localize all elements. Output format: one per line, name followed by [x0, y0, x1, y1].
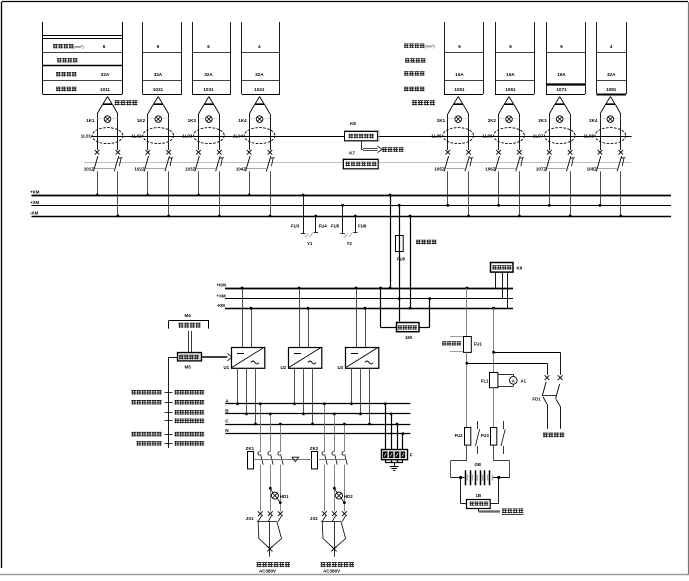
- signal tick: bus insulation detect: [131, 432, 204, 437]
- signal tick: closing bus voltage sample: [131, 400, 204, 405]
- svg-text:1K2: 1K2: [137, 118, 146, 123]
- feeder 104Z output arrow: [255, 97, 264, 104]
- busbar +KM (closing bus positive): [30, 190, 671, 196]
- right table column for feeder 8: [597, 22, 627, 95]
- rectifier module U1: [224, 347, 265, 370]
- feeder 108Z current transformer 1L08: [584, 128, 626, 144]
- svg-text:1L05: 1L05: [431, 134, 442, 139]
- svg-text:1051: 1051: [454, 87, 465, 92]
- hollow arrow sampler to module U1: [201, 353, 232, 360]
- feeder 106Z plug/lamp symbol 2K2: [488, 105, 520, 151]
- feeder 102Z plug/lamp symbol 1K2: [137, 105, 169, 151]
- feeder 105Z wires to DC busbars: [446, 171, 470, 217]
- svg-text:103Z: 103Z: [185, 166, 196, 171]
- left table column for feeder 4: [242, 22, 280, 95]
- feeder 102Z wires to DC busbars: [146, 171, 170, 217]
- svg-text:A: A: [512, 378, 515, 383]
- right table column for feeder 5: [444, 22, 484, 95]
- AC busbar B: [225, 408, 410, 413]
- feeder 102Z breaker poles 102Z: [134, 150, 173, 171]
- svg-text:GB: GB: [475, 462, 482, 467]
- cable entry funnel JX2: [310, 516, 346, 557]
- svg-text:16A: 16A: [557, 72, 566, 77]
- feeder 105Z breaker poles 105Z: [434, 150, 473, 171]
- svg-text:JX1: JX1: [246, 516, 254, 521]
- feeder 107Z current transformer 1L07: [533, 128, 575, 144]
- svg-text:108Z: 108Z: [587, 166, 598, 171]
- feeder 101Z breaker poles 101Z: [84, 150, 123, 171]
- battery positive wire from +KM bus: [466, 287, 469, 337]
- svg-text:AC380V: AC380V: [259, 569, 276, 574]
- svg-text:106Z: 106Z: [485, 166, 496, 171]
- svg-text:105Z: 105Z: [434, 166, 445, 171]
- svg-text:ZK1: ZK1: [246, 446, 255, 451]
- battery negative wire from -KM bus: [492, 307, 495, 373]
- busbar +XM (control bus positive): [30, 200, 671, 206]
- svg-text:1081: 1081: [606, 87, 617, 92]
- svg-text:16A: 16A: [506, 72, 515, 77]
- shunt FL1 with ammeter A1: [481, 373, 527, 388]
- feeder 101Z output arrow: [103, 97, 112, 104]
- feeder 104Z wires to DC busbars: [248, 171, 272, 217]
- svg-text:1L06: 1L06: [482, 134, 493, 139]
- module U2 DC output wires: [298, 287, 310, 348]
- svg-text:1011: 1011: [100, 87, 110, 92]
- voltage monitor box K9: [491, 263, 523, 309]
- svg-text:1021: 1021: [153, 87, 164, 92]
- feeder 105Z plug/lamp symbol 2K1: [437, 105, 469, 151]
- feeder 104Z current transformer 1L04: [233, 128, 275, 144]
- svg-text:1071: 1071: [556, 87, 567, 92]
- svg-text:6: 6: [560, 44, 563, 49]
- left table row labels: [53, 44, 84, 91]
- svg-text:AC380V: AC380V: [323, 569, 340, 574]
- svg-text:FL1: FL1: [481, 378, 489, 383]
- svg-text:+KM: +KM: [30, 190, 40, 195]
- feeder 107Z output arrow: [555, 97, 564, 104]
- cable entry funnel JX1: [246, 516, 282, 557]
- voltage dropper device 160: [379, 287, 431, 340]
- svg-text:A1: A1: [521, 378, 527, 383]
- feeder 107Z wires to DC busbars: [548, 171, 572, 217]
- svg-text:32A: 32A: [101, 72, 110, 77]
- signal tick: charge voltage sample: [165, 419, 205, 424]
- AC input branch 2 circuit label: [310, 402, 354, 573]
- right table column for feeder 6: [495, 22, 535, 95]
- feeder 108Z breaker poles 108Z: [587, 150, 626, 171]
- feeder 102Z current transformer 1L02: [131, 128, 173, 144]
- feeder 105Z current transformer 1L05: [431, 128, 473, 144]
- contactor ZK1 poles: [258, 402, 283, 516]
- svg-text:6: 6: [103, 44, 106, 49]
- switch-state monitor box K8: [345, 121, 380, 141]
- svg-text:4: 4: [610, 44, 613, 49]
- svg-text:U1: U1: [224, 365, 230, 370]
- svg-text:32A: 32A: [255, 72, 264, 77]
- signal tick: battery voltage sample: [131, 390, 204, 395]
- battery positive wire continues: [466, 352, 469, 428]
- wire -KM to lower bus: [409, 215, 412, 310]
- feeder 102Z output arrow: [154, 97, 163, 104]
- arrow to main monitor (top): [349, 146, 403, 155]
- battery fuse FU2 and isolating link: [455, 421, 480, 454]
- svg-text:1L03: 1L03: [182, 134, 193, 139]
- discharge circuit label: [543, 433, 564, 438]
- feeder 103Z breaker poles 103Z: [185, 150, 224, 171]
- discharge disconnect FD1: [532, 375, 562, 428]
- rectifier module U2: [281, 347, 322, 370]
- svg-text:F: F: [410, 452, 413, 457]
- right group label (control-bus output): [412, 100, 435, 105]
- feeder 104Z breaker poles 104Z: [236, 150, 275, 171]
- svg-text:4: 4: [258, 44, 261, 49]
- right table column for feeder 7: [546, 22, 586, 95]
- left feeder data table box: [43, 22, 123, 95]
- svg-text:M4: M4: [185, 313, 192, 318]
- module U1 AC input wires: [236, 368, 257, 425]
- svg-text:1K4: 1K4: [238, 118, 247, 123]
- AC input branch 1 circuit label: [246, 402, 290, 573]
- right table row labels: [404, 43, 435, 91]
- svg-text:6: 6: [458, 44, 461, 49]
- AC busbar C: [225, 419, 410, 425]
- contactor ZK2 poles: [322, 402, 347, 516]
- integrated sampler box M5: [178, 353, 202, 370]
- svg-text:(mm²): (mm²): [425, 45, 436, 49]
- busbar -KM (negative): [30, 211, 671, 217]
- svg-text:32A: 32A: [154, 72, 163, 77]
- svg-text:Y2: Y2: [347, 241, 353, 246]
- svg-text:U2: U2: [281, 365, 287, 370]
- charge fuse FU1: [442, 337, 483, 353]
- left table col1 values: [100, 44, 110, 92]
- AC contactor ZK2: [310, 446, 319, 469]
- AC busbar A: [225, 398, 410, 403]
- svg-text:+KM: +KM: [217, 283, 227, 288]
- svg-text:M5: M5: [185, 365, 192, 370]
- rectifier module U3: [338, 347, 379, 370]
- indicator lamp HD2: [333, 487, 353, 504]
- feeder 104Z plug/lamp symbol 1K4: [238, 105, 270, 151]
- AC busbar N: [225, 428, 410, 433]
- svg-text:FU2: FU2: [455, 433, 464, 438]
- svg-text:16A: 16A: [455, 72, 464, 77]
- ground symbol for surge protector: [385, 460, 403, 471]
- svg-text:101Z: 101Z: [84, 166, 95, 171]
- feeder 101Z plug/lamp symbol 1K1: [86, 105, 118, 151]
- signal tick: control bus voltage sample: [165, 410, 205, 415]
- svg-text:Y1: Y1: [307, 241, 313, 246]
- surge protector F: [382, 402, 413, 459]
- left table column for feeder 3: [192, 22, 231, 95]
- wire +KM to lower bus: [389, 194, 392, 290]
- module U3 DC output wires: [355, 287, 367, 348]
- signal tick: system fault alarm: [137, 441, 205, 446]
- svg-text:1L04: 1L04: [233, 134, 244, 139]
- feeder 107Z plug/lamp symbol 2K3: [538, 105, 570, 151]
- discharge branch wires: [467, 352, 561, 375]
- battery negative wire continues: [493, 388, 495, 428]
- feeder output line y136: [91, 136, 632, 138]
- svg-text:FU3: FU3: [481, 433, 490, 438]
- svg-text:+XM: +XM: [217, 293, 226, 298]
- svg-text:1L02: 1L02: [131, 134, 142, 139]
- lower busbar +KM: [217, 283, 514, 289]
- feeder 106Z current transformer 1L06: [482, 128, 524, 144]
- feeder 101Z current transformer 1L01: [81, 128, 123, 144]
- svg-text:6: 6: [157, 44, 160, 49]
- svg-text:2K3: 2K3: [538, 118, 547, 123]
- left group label (closing-bus output): [115, 100, 138, 105]
- isolator linkage grey line y162.6: [84, 162, 631, 164]
- feeder 101Z wires to DC busbars: [96, 171, 120, 217]
- lower busbar -KM: [217, 303, 514, 309]
- battery fuse FU3 and isolating link: [481, 421, 505, 454]
- svg-text:2K2: 2K2: [488, 118, 497, 123]
- indicator lamp HD1: [269, 487, 289, 504]
- arrester tap Y2 with fuses FU5 FU6: [331, 204, 367, 246]
- svg-text:+XM: +XM: [30, 200, 39, 205]
- feeder 108Z output arrow: [606, 97, 615, 104]
- feeder 108Z wires to DC busbars: [599, 171, 623, 217]
- svg-text:1L07: 1L07: [533, 134, 544, 139]
- feeder 103Z current transformer 1L03: [182, 128, 224, 144]
- AC contactor ZK1: [246, 446, 255, 469]
- wire +XM down with control fuse FU0: [396, 204, 437, 322]
- svg-text:6: 6: [207, 44, 210, 49]
- svg-text:1B: 1B: [476, 493, 482, 498]
- svg-text:FU3: FU3: [291, 224, 300, 229]
- svg-text:FU6: FU6: [358, 224, 367, 229]
- svg-text:1041: 1041: [254, 87, 265, 92]
- svg-text:FU4: FU4: [319, 224, 328, 229]
- double link monitor to sampler: [189, 331, 192, 353]
- DC insulation monitor box: [343, 159, 379, 170]
- sampler signal trunk wire: [168, 357, 177, 448]
- svg-text:ZK2: ZK2: [310, 446, 319, 451]
- svg-text:1061: 1061: [505, 87, 516, 92]
- feeder 108Z plug/lamp symbol 2K4: [589, 105, 621, 151]
- lower busbar +XM: [217, 293, 514, 298]
- svg-text:FD1: FD1: [532, 397, 541, 402]
- arrester tap Y1 with fuses FU3 FU4: [291, 194, 327, 247]
- svg-text:2K1: 2K1: [437, 118, 446, 123]
- feeder 106Z wires to DC busbars: [497, 171, 521, 217]
- feeder 106Z output arrow: [505, 97, 514, 104]
- svg-text:-KM: -KM: [217, 303, 226, 308]
- svg-text:104Z: 104Z: [236, 166, 247, 171]
- battery group GB: [451, 445, 510, 485]
- svg-text:1L01: 1L01: [81, 134, 92, 139]
- svg-text:HD1: HD1: [280, 494, 289, 499]
- svg-text:6: 6: [509, 44, 512, 49]
- svg-text:JX2: JX2: [310, 516, 318, 521]
- svg-text:1K1: 1K1: [86, 118, 95, 123]
- monitor module bracket M4: [169, 313, 209, 329]
- svg-text:U3: U3: [338, 365, 344, 370]
- feeder 107Z breaker poles 107Z: [536, 150, 575, 171]
- left table column for feeder 2: [143, 22, 182, 95]
- contactor linkage bar with changeover mark: [253, 457, 346, 461]
- svg-text:FU0: FU0: [397, 257, 406, 262]
- feeder 106Z breaker poles 106Z: [485, 150, 524, 171]
- svg-text:107Z: 107Z: [536, 166, 547, 171]
- svg-text:FU1: FU1: [474, 341, 483, 346]
- svg-text:K7: K7: [349, 150, 355, 155]
- battery monitor link to main monitor: [479, 508, 524, 515]
- svg-text:1K3: 1K3: [188, 118, 197, 123]
- svg-text:2K4: 2K4: [589, 118, 598, 123]
- svg-text:32A: 32A: [204, 72, 213, 77]
- svg-text:1L08: 1L08: [584, 134, 595, 139]
- svg-text:1031: 1031: [203, 87, 214, 92]
- wire K8 to arrow: [361, 141, 363, 150]
- feeder 105Z output arrow: [454, 97, 463, 104]
- svg-text:K9: K9: [517, 266, 523, 271]
- svg-text:K8: K8: [350, 121, 356, 126]
- battery inspection module 1B: [461, 478, 499, 509]
- svg-text:FU5: FU5: [331, 224, 340, 229]
- module U1 DC output wires: [241, 287, 253, 348]
- svg-text:-KM: -KM: [30, 211, 39, 216]
- feeder 103Z output arrow: [205, 97, 214, 104]
- svg-text:(mm²): (mm²): [74, 45, 85, 49]
- svg-text:160: 160: [405, 335, 413, 340]
- module U3 AC input wires: [350, 368, 371, 425]
- svg-text:102Z: 102Z: [134, 166, 145, 171]
- feeder 103Z plug/lamp symbol 1K3: [188, 105, 220, 151]
- svg-text:HD2: HD2: [344, 494, 353, 499]
- feeder 103Z wires to DC busbars: [197, 171, 221, 217]
- svg-text:32A: 32A: [607, 72, 616, 77]
- module U2 AC input wires: [293, 368, 314, 425]
